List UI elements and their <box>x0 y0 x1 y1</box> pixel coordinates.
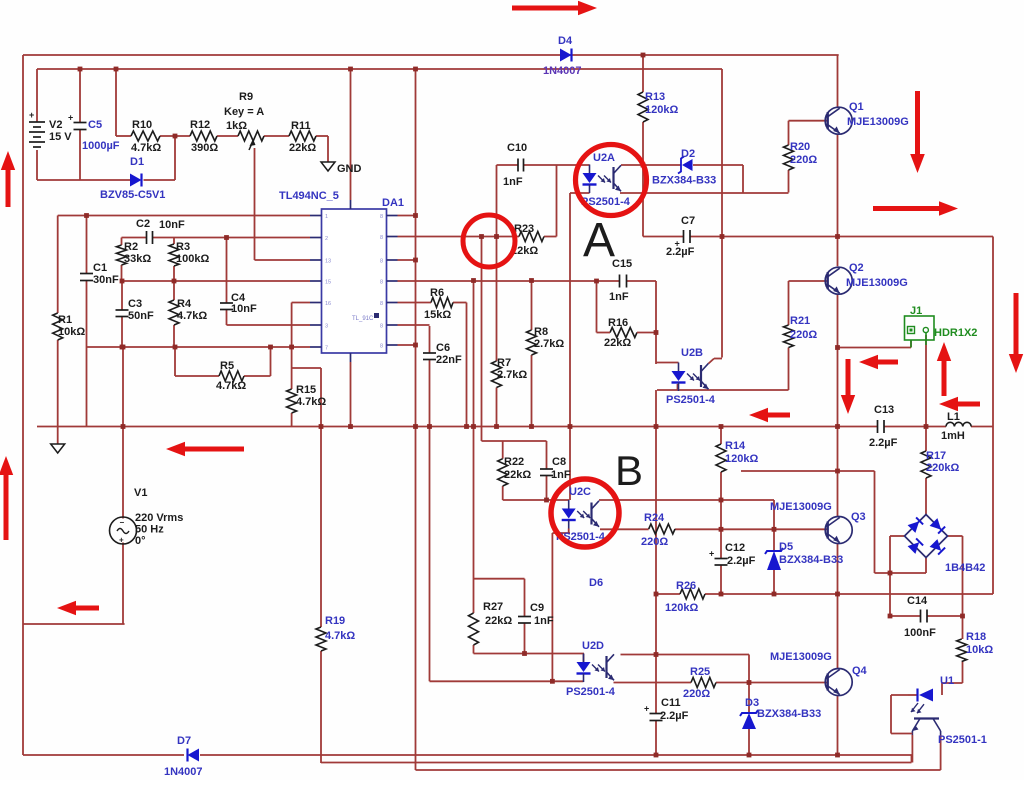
svg-text:R14: R14 <box>725 440 746 452</box>
svg-text:8: 8 <box>380 344 383 350</box>
svg-text:R11: R11 <box>291 120 311 132</box>
svg-text:R8: R8 <box>534 326 548 338</box>
svg-text:220Ω: 220Ω <box>641 536 668 548</box>
svg-text:PS2501-4: PS2501-4 <box>566 686 616 698</box>
svg-text:R24: R24 <box>644 512 665 524</box>
svg-text:HDR1X2: HDR1X2 <box>934 327 977 339</box>
svg-text:D4: D4 <box>558 35 573 47</box>
svg-text:1: 1 <box>325 214 328 220</box>
svg-text:C12: C12 <box>725 542 745 554</box>
svg-text:R17: R17 <box>926 450 946 462</box>
svg-text:10kΩ: 10kΩ <box>58 326 85 338</box>
svg-text:C6: C6 <box>436 342 450 354</box>
svg-text:22kΩ: 22kΩ <box>485 615 512 627</box>
svg-text:1N4007: 1N4007 <box>164 766 203 778</box>
svg-text:2.2µF: 2.2µF <box>660 710 689 722</box>
svg-text:R25: R25 <box>690 666 710 678</box>
svg-text:4.7kΩ: 4.7kΩ <box>131 142 161 154</box>
svg-text:PS2501-4: PS2501-4 <box>666 394 716 406</box>
svg-text:Q2: Q2 <box>849 262 864 274</box>
svg-text:13: 13 <box>325 259 331 265</box>
svg-text:33kΩ: 33kΩ <box>124 253 151 265</box>
svg-text:BZX384-B33: BZX384-B33 <box>757 708 821 720</box>
svg-text:R18: R18 <box>966 631 986 643</box>
svg-text:MJE13009G: MJE13009G <box>770 651 832 663</box>
svg-text:22nF: 22nF <box>436 354 462 366</box>
svg-text:1B4B42: 1B4B42 <box>945 562 985 574</box>
svg-text:R1: R1 <box>58 314 72 326</box>
svg-text:C2: C2 <box>136 218 150 230</box>
svg-text:0°: 0° <box>135 535 146 547</box>
svg-text:100kΩ: 100kΩ <box>176 253 209 265</box>
svg-text:BZX384-B33: BZX384-B33 <box>779 554 843 566</box>
svg-text:C3: C3 <box>128 298 142 310</box>
svg-text:1nF: 1nF <box>503 176 523 188</box>
svg-text:1nF: 1nF <box>551 469 571 481</box>
svg-text:1kΩ: 1kΩ <box>226 120 247 132</box>
svg-text:220 Vrms: 220 Vrms <box>135 512 183 524</box>
svg-text:1000µF: 1000µF <box>82 140 120 152</box>
svg-text:1mH: 1mH <box>941 430 965 442</box>
svg-text:220kΩ: 220kΩ <box>926 462 959 474</box>
svg-text:R26: R26 <box>676 580 696 592</box>
svg-text:2.7kΩ: 2.7kΩ <box>497 369 527 381</box>
svg-text:2.2µF: 2.2µF <box>727 555 756 567</box>
svg-text:120kΩ: 120kΩ <box>645 104 678 116</box>
svg-text:BZX384-B33: BZX384-B33 <box>652 175 716 187</box>
svg-text:8: 8 <box>380 280 383 286</box>
svg-text:Key = A: Key = A <box>224 106 264 118</box>
svg-text:15 V: 15 V <box>49 131 72 143</box>
svg-text:MJE13009G: MJE13009G <box>847 116 909 128</box>
svg-text:U1: U1 <box>940 675 954 687</box>
svg-text:220Ω: 220Ω <box>790 154 817 166</box>
svg-text:U2C: U2C <box>569 486 591 498</box>
svg-text:4.7kΩ: 4.7kΩ <box>177 310 207 322</box>
svg-text:+: + <box>119 536 124 545</box>
svg-text:8: 8 <box>380 301 383 307</box>
svg-text:2.7kΩ: 2.7kΩ <box>534 338 564 350</box>
svg-text:R23: R23 <box>514 223 534 235</box>
svg-text:C8: C8 <box>552 456 566 468</box>
svg-text:30nF: 30nF <box>93 274 119 286</box>
svg-text:1nF: 1nF <box>609 291 629 303</box>
svg-text:50nF: 50nF <box>128 310 154 322</box>
svg-text:2.2µF: 2.2µF <box>869 437 898 449</box>
svg-text:D7: D7 <box>177 735 191 747</box>
svg-text:15kΩ: 15kΩ <box>424 309 451 321</box>
svg-text:V1: V1 <box>134 487 147 499</box>
svg-text:C1: C1 <box>93 262 107 274</box>
svg-text:DA1: DA1 <box>382 197 404 209</box>
svg-text:PS2501-1: PS2501-1 <box>938 734 987 746</box>
svg-text:22kΩ: 22kΩ <box>504 469 531 481</box>
svg-text:100nF: 100nF <box>904 627 936 639</box>
svg-text:B: B <box>615 447 643 494</box>
svg-text:50 Hz: 50 Hz <box>135 524 164 536</box>
svg-text:8: 8 <box>380 235 383 241</box>
svg-text:10nF: 10nF <box>159 219 185 231</box>
svg-text:22kΩ: 22kΩ <box>604 337 631 349</box>
svg-text:C11: C11 <box>661 697 681 709</box>
svg-text:+: + <box>68 113 73 123</box>
svg-text:R20: R20 <box>790 141 810 153</box>
svg-text:R5: R5 <box>220 360 234 372</box>
svg-text:U2D: U2D <box>582 640 604 652</box>
svg-text:C14: C14 <box>907 595 928 607</box>
svg-text:22kΩ: 22kΩ <box>289 142 316 154</box>
svg-text:V2: V2 <box>49 119 62 131</box>
svg-text:R22: R22 <box>504 456 524 468</box>
svg-text:R21: R21 <box>790 315 810 327</box>
svg-text:L1: L1 <box>947 411 960 423</box>
svg-text:R3: R3 <box>176 241 190 253</box>
svg-text:J1: J1 <box>910 305 922 317</box>
svg-text:4.7kΩ: 4.7kΩ <box>216 380 246 392</box>
svg-text:+: + <box>709 549 714 559</box>
svg-text:C9: C9 <box>530 602 544 614</box>
svg-text:R2: R2 <box>124 241 138 253</box>
svg-text:R13: R13 <box>645 91 665 103</box>
svg-text:C13: C13 <box>874 404 894 416</box>
svg-text:R7: R7 <box>497 357 511 369</box>
svg-text:Q3: Q3 <box>851 511 866 523</box>
svg-text:D5: D5 <box>779 541 793 553</box>
svg-text:3: 3 <box>325 324 328 330</box>
svg-text:−: − <box>120 518 125 527</box>
svg-text:R6: R6 <box>430 287 444 299</box>
svg-text:R12: R12 <box>190 119 210 131</box>
svg-text:MJE13009G: MJE13009G <box>846 277 908 289</box>
svg-text:7: 7 <box>325 346 328 352</box>
svg-text:D6: D6 <box>589 577 603 589</box>
svg-text:U2B: U2B <box>681 347 703 359</box>
svg-text:C10: C10 <box>507 142 527 154</box>
svg-text:R27: R27 <box>483 601 503 613</box>
svg-text:D1: D1 <box>130 156 144 168</box>
svg-text:10kΩ: 10kΩ <box>966 644 993 656</box>
svg-text:8: 8 <box>380 259 383 265</box>
svg-text:A: A <box>583 214 615 267</box>
svg-text:R19: R19 <box>325 615 345 627</box>
svg-text:U2A: U2A <box>593 152 615 164</box>
svg-text:Q1: Q1 <box>849 101 864 113</box>
svg-text:220Ω: 220Ω <box>683 688 710 700</box>
svg-text:8: 8 <box>380 324 383 330</box>
svg-text:R16: R16 <box>608 317 628 329</box>
svg-text:TL494NC_5: TL494NC_5 <box>279 190 339 202</box>
svg-text:120kΩ: 120kΩ <box>725 453 758 465</box>
svg-text:C15: C15 <box>612 258 632 270</box>
svg-text:390Ω: 390Ω <box>191 142 218 154</box>
svg-text:2: 2 <box>325 236 328 242</box>
svg-text:R15: R15 <box>296 384 316 396</box>
svg-text:C5: C5 <box>88 119 102 131</box>
svg-text:+: + <box>644 704 649 714</box>
svg-text:GND: GND <box>337 163 362 175</box>
svg-text:R9: R9 <box>239 91 253 103</box>
svg-text:TL_91C: TL_91C <box>352 316 374 322</box>
svg-text:220Ω: 220Ω <box>790 329 817 341</box>
svg-text:BZV85-C5V1: BZV85-C5V1 <box>100 189 165 201</box>
svg-text:C7: C7 <box>681 215 695 227</box>
svg-text:4.7kΩ: 4.7kΩ <box>296 396 326 408</box>
svg-text:D2: D2 <box>681 148 695 160</box>
svg-text:10nF: 10nF <box>231 303 257 315</box>
svg-text:Q4: Q4 <box>852 665 868 677</box>
svg-text:16: 16 <box>325 301 331 307</box>
svg-text:120kΩ: 120kΩ <box>665 602 698 614</box>
svg-text:15: 15 <box>325 280 331 286</box>
svg-text:1N4007: 1N4007 <box>543 65 582 77</box>
svg-text:+: + <box>29 110 34 120</box>
svg-text:2.2µF: 2.2µF <box>666 246 695 258</box>
svg-text:8: 8 <box>380 214 383 220</box>
svg-text:4.7kΩ: 4.7kΩ <box>325 630 355 642</box>
svg-text:1nF: 1nF <box>534 615 554 627</box>
svg-text:R4: R4 <box>177 298 192 310</box>
svg-text:MJE13009G: MJE13009G <box>770 501 832 513</box>
svg-text:R10: R10 <box>132 119 152 131</box>
